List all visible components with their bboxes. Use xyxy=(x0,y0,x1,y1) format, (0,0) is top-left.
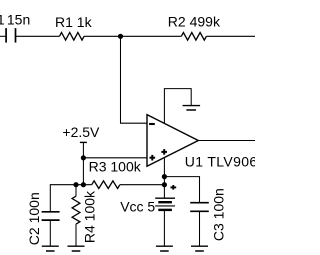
wire C1 to R1 xyxy=(16,35,60,37)
capacitor C3 100n plates xyxy=(190,203,209,212)
svg-text:R1 1k: R1 1k xyxy=(55,14,93,30)
op-amp U1 triangle xyxy=(147,115,198,167)
node junction Vcc rail to C3 xyxy=(162,174,167,179)
wire R2 to right edge xyxy=(206,35,255,37)
wire Vcc rail to C3 xyxy=(164,177,199,203)
svg-text:Vcc 5: Vcc 5 xyxy=(120,199,155,215)
wire +2.5V node down to bias rail xyxy=(82,158,84,185)
resistor R1 1k xyxy=(60,33,85,41)
op-amp positive supply plus symbol xyxy=(161,151,167,153)
node junction +2.5V on bias rail xyxy=(81,182,86,187)
ground (C3) xyxy=(191,245,208,247)
wire input stub left of C1 xyxy=(0,35,6,37)
resistor R2 499k xyxy=(181,33,206,41)
wire C2 to ground xyxy=(49,220,51,246)
capacitor C1 15n xyxy=(6,28,15,42)
ground (op-amp negative rail) xyxy=(183,105,201,107)
svg-text:C3 100n: C3 100n xyxy=(210,188,226,241)
wire C3 to ground xyxy=(199,211,201,246)
battery plus symbol xyxy=(171,186,177,188)
op-amp inverting input minus symbol xyxy=(149,123,155,125)
wire R1 to R2 (through node) xyxy=(84,35,181,37)
resistor R3 100k xyxy=(92,181,120,189)
svg-text:R4 100k: R4 100k xyxy=(82,190,98,243)
wire op-amp power pin down to battery xyxy=(163,157,165,198)
svg-text:R2 499k: R2 499k xyxy=(168,14,221,30)
node junction Vcc rail to R3 xyxy=(162,182,167,187)
ground (R4) xyxy=(68,245,85,247)
ground (battery) xyxy=(156,245,173,247)
node junction +2.5V / +input xyxy=(81,155,86,160)
wire op-amp top pin to ground xyxy=(164,89,191,124)
node junction R4 on bias rail xyxy=(73,182,78,187)
wire bias rail C2 to R3 xyxy=(50,185,91,212)
svg-text:15n: 15n xyxy=(7,12,30,28)
svg-text:U1 TLV9062: U1 TLV9062 xyxy=(185,153,255,169)
svg-text:R3 100k: R3 100k xyxy=(89,158,142,174)
wire R3 to Vcc rail xyxy=(120,184,164,186)
battery V1 Vcc 5 xyxy=(155,197,175,199)
wire op-amp output to right edge xyxy=(198,140,255,142)
capacitor C2 100n plates xyxy=(42,212,60,220)
svg-text:+2.5V: +2.5V xyxy=(62,124,100,140)
wire noninverting input xyxy=(83,157,147,159)
wire battery to ground xyxy=(163,211,165,247)
op-amp noninverting input plus symbol xyxy=(150,157,156,159)
node junction R1/R2/inverting input xyxy=(118,34,123,39)
wire inverting input from node down and right to op-amp xyxy=(121,36,148,123)
wire +2.5V down to node xyxy=(82,142,84,157)
svg-text:1: 1 xyxy=(0,12,5,28)
supply +2.5V terminal bar xyxy=(80,141,87,143)
resistor R4 100k vertical xyxy=(75,185,77,197)
ground (C2) xyxy=(42,245,59,247)
svg-text:C2 100n: C2 100n xyxy=(26,192,42,245)
